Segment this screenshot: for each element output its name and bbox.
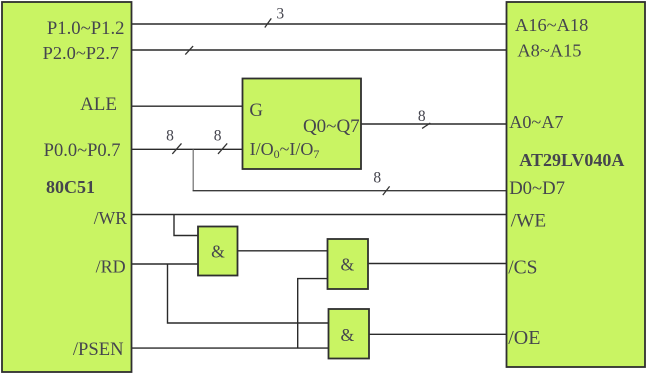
- wire: branch from /RD down and right to AND3 upper input: [168, 264, 329, 323]
- bus width marker (slash): [218, 143, 227, 154]
- svg-text:A16~A18: A16~A18: [515, 15, 588, 35]
- AND gate U3A body: [198, 227, 238, 276]
- wire: P1.0~P1.2 to A16~A18 (3-bit bus): [132, 23, 507, 25]
- wire: data bus to D0~D7 (8-bit bus): [193, 190, 507, 192]
- svg-text:A0~A7: A0~A7: [509, 112, 563, 132]
- wire: /PSEN to AND3 lower input: [132, 347, 329, 349]
- bus width marker (slash): [383, 186, 390, 195]
- wire: AND1 output to AND2 upper input: [238, 250, 328, 252]
- svg-text:&: &: [211, 241, 225, 261]
- wire: /WR to /WE: [132, 214, 507, 216]
- bus width marker (slash): [185, 46, 193, 55]
- svg-text:80C51: 80C51: [46, 177, 95, 197]
- svg-text:8: 8: [166, 128, 174, 145]
- wire: P2.0~P2.7 to A8~A15 (8-bit bus): [132, 49, 507, 51]
- svg-text:ALE: ALE: [80, 94, 117, 115]
- bus width marker (3-bit slash): [265, 18, 272, 27]
- svg-text:/CS: /CS: [508, 257, 537, 278]
- wire: branch from /WR down to AND1 input: [174, 215, 198, 236]
- wire: /RD to AND1 lower input: [132, 263, 199, 265]
- svg-text:Q0~Q7: Q0~Q7: [303, 116, 360, 137]
- bus width marker (slash): [422, 123, 430, 128]
- svg-text:P0.0~P0.7: P0.0~P0.7: [44, 141, 121, 161]
- latch U2: address latch body: [243, 79, 362, 170]
- svg-text:8: 8: [214, 128, 222, 145]
- svg-text:/PSEN: /PSEN: [73, 339, 124, 360]
- svg-text:8: 8: [418, 108, 426, 125]
- svg-text:D0~D7: D0~D7: [509, 178, 565, 199]
- svg-text:P1.0~P1.2: P1.0~P1.2: [47, 18, 125, 39]
- svg-text:I/O0~I/O7: I/O0~I/O7: [250, 139, 320, 161]
- wire: AND3 output to /OE: [369, 333, 507, 335]
- svg-text:8: 8: [373, 170, 381, 187]
- svg-text:/OE: /OE: [508, 327, 540, 349]
- svg-text:G: G: [249, 100, 263, 121]
- wire: vertical branch from P0 bus down to data bus: [192, 149, 194, 190]
- wire: ALE to latch G: [132, 105, 243, 107]
- wire: latch Q0~Q7 to A0~A7 (8-bit bus): [361, 123, 507, 125]
- wire: AND2 output to /CS: [368, 263, 507, 265]
- svg-text:3: 3: [276, 5, 284, 22]
- svg-text:P2.0~P2.7: P2.0~P2.7: [43, 43, 119, 63]
- svg-text:AT29LV040A: AT29LV040A: [519, 150, 624, 170]
- AND gate U3B body: [328, 239, 369, 289]
- IC U4: AT29LV040A flash memory body: [507, 2, 646, 367]
- svg-text:/WE: /WE: [511, 210, 546, 231]
- wire: branch from /PSEN up to AND2 lower input: [298, 279, 328, 349]
- AND gate U3C body: [329, 309, 370, 359]
- bus width marker (slash): [172, 143, 181, 154]
- wire: P0.0~P0.7 to latch I/O (8-bit bus): [132, 148, 243, 150]
- svg-text:A8~A15: A8~A15: [517, 41, 581, 61]
- svg-text:&: &: [341, 325, 355, 345]
- svg-text:&: &: [341, 255, 355, 275]
- IC U1: 80C51 microcontroller body: [2, 2, 132, 372]
- svg-text:/WR: /WR: [94, 208, 127, 228]
- svg-text:/RD: /RD: [96, 256, 126, 276]
